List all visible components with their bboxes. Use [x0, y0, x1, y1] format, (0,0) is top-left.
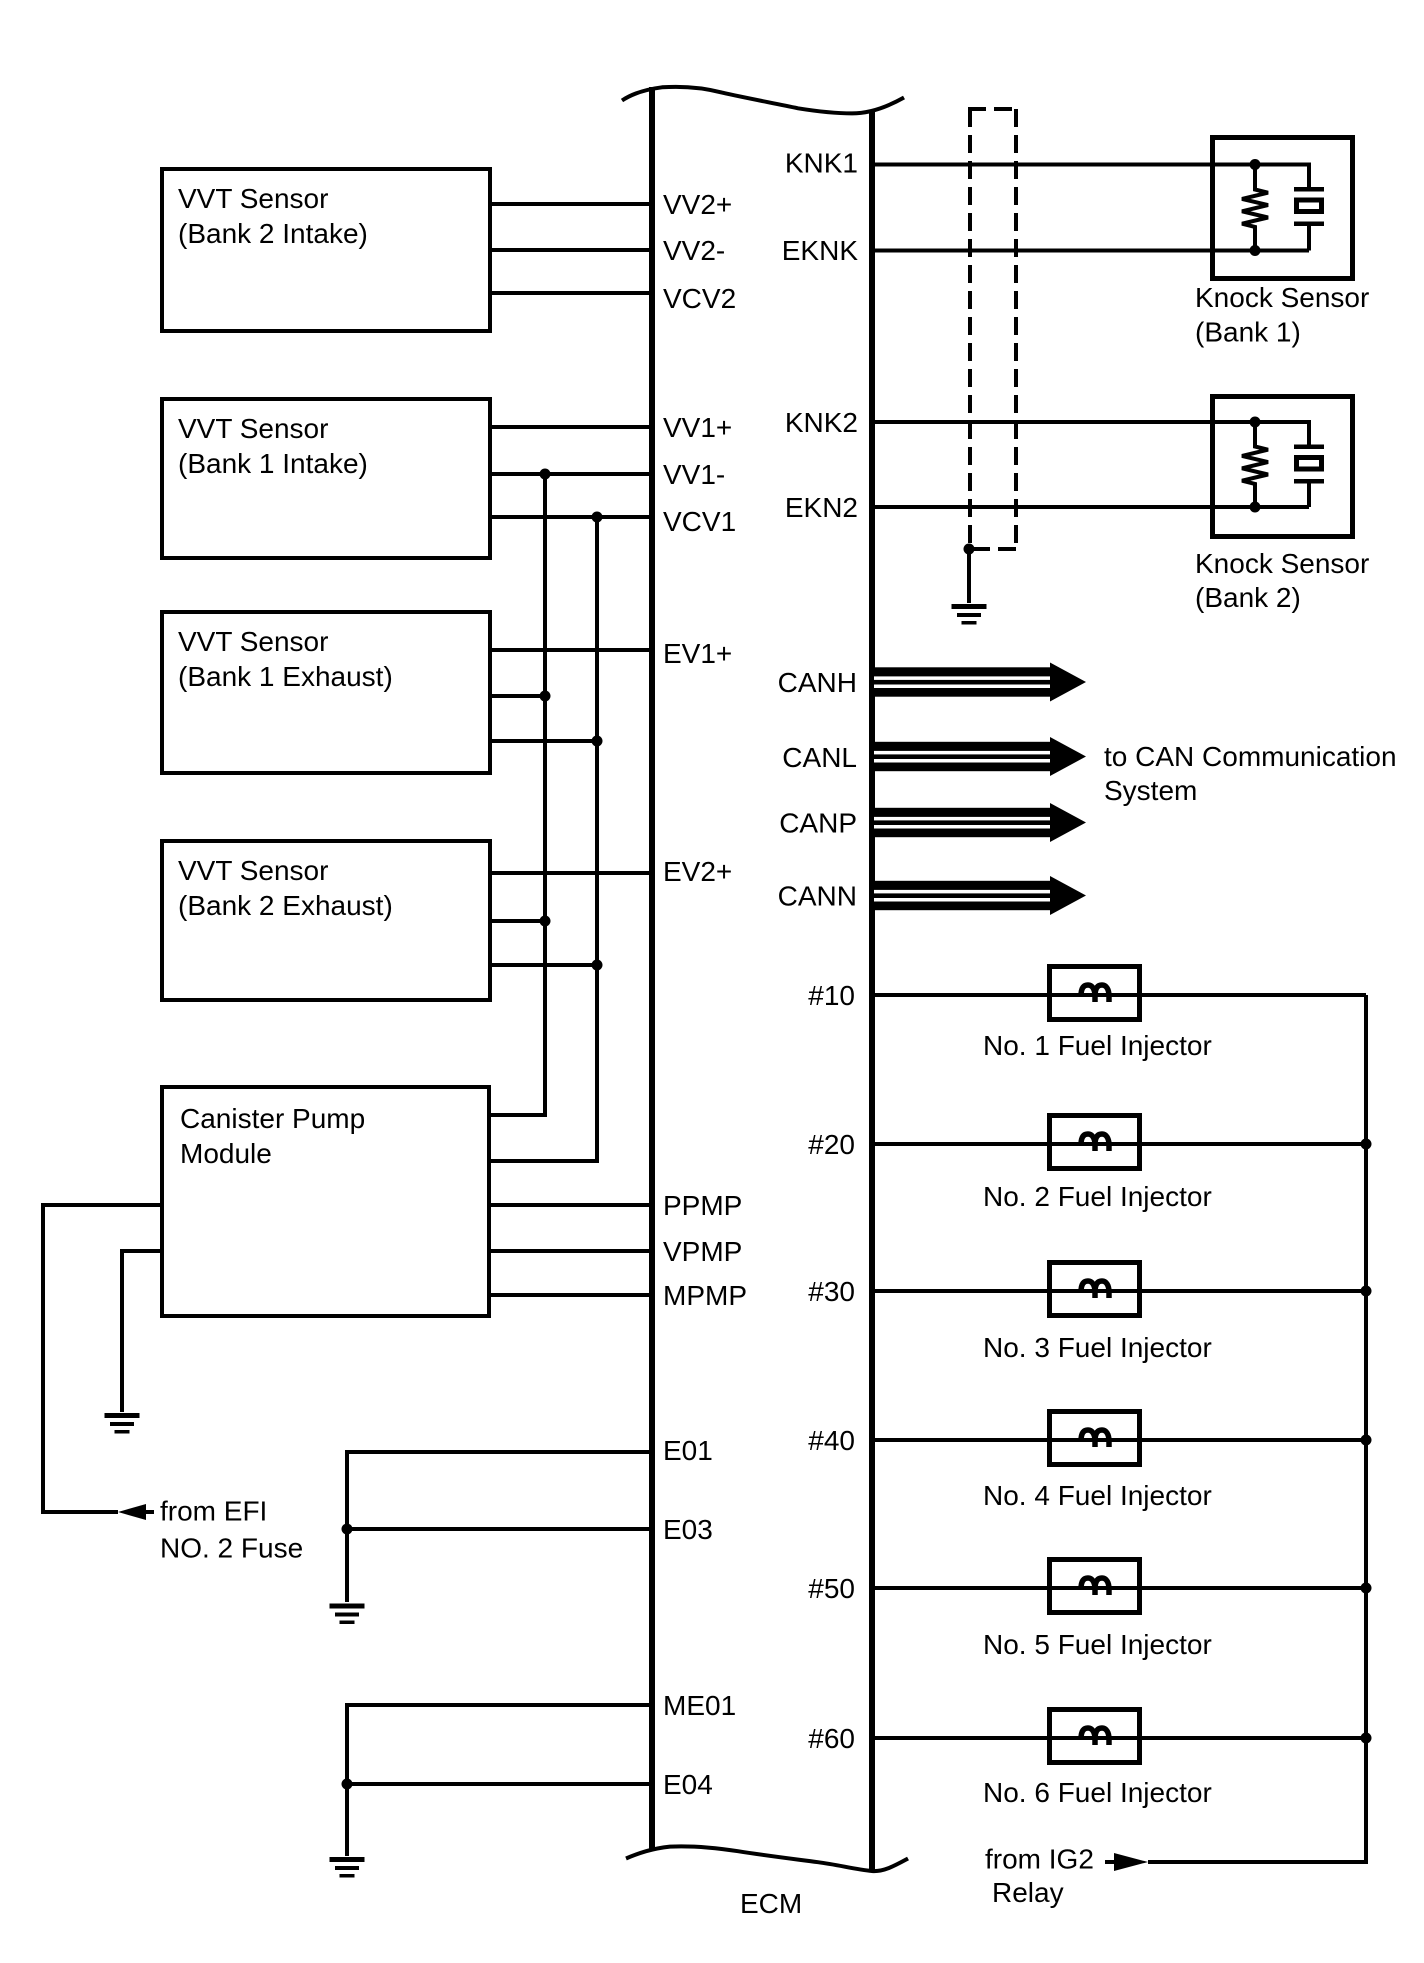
wire injector #10	[872, 993, 1366, 997]
junction dot EKNK	[1250, 245, 1261, 256]
ground E01/E03	[330, 1604, 365, 1625]
svg-text:VV1+: VV1+	[663, 412, 732, 443]
svg-text:(Bank 1 Exhaust): (Bank 1 Exhaust)	[178, 661, 393, 692]
svg-text:to CAN Communication: to CAN Communication	[1104, 741, 1397, 772]
arrow tail from EFI fuse	[146, 1510, 154, 1514]
wire canister ground	[122, 1251, 162, 1412]
svg-text:VCV2: VCV2	[663, 283, 736, 314]
CAN arrow CANN	[874, 876, 1086, 915]
wire VVT bank2 exhaust supply to riser	[490, 963, 597, 967]
svg-text:VV2+: VV2+	[663, 189, 732, 220]
ECM body left edge	[649, 87, 655, 1849]
junction dot bus #20	[1361, 1139, 1372, 1150]
fuel injector 4 (No. 4 Fuel Injector)	[1050, 1412, 1140, 1465]
wire VV1+	[490, 425, 652, 429]
CAN arrow CANP	[874, 803, 1086, 842]
svg-text:Relay: Relay	[992, 1877, 1064, 1908]
junction dot shield	[964, 544, 975, 555]
svg-text:No. 2 Fuel Injector: No. 2 Fuel Injector	[983, 1181, 1212, 1212]
svg-text:#20: #20	[808, 1129, 855, 1160]
ECM body right edge	[869, 111, 875, 1871]
junction dot bank1 exhaust supply	[592, 736, 603, 747]
arrowhead from EFI fuse	[118, 1504, 146, 1520]
Canister Pump Module box	[162, 1087, 489, 1316]
label Knock Sensor (Bank 1)	[1195, 282, 1369, 348]
wire EV2+	[490, 871, 652, 875]
svg-text:(Bank 2): (Bank 2)	[1195, 582, 1301, 613]
svg-text:(Bank 1 Intake): (Bank 1 Intake)	[178, 448, 368, 479]
Knock Sensor (Bank 1) box	[1213, 138, 1353, 279]
wire KNK1	[872, 163, 1255, 167]
ground canister pump	[105, 1413, 140, 1434]
wire injector #30	[872, 1289, 1366, 1293]
junction dot bus #60	[1361, 1733, 1372, 1744]
arrowhead from IG2 relay	[1114, 1853, 1148, 1871]
wire riser canister to VCV1 net	[489, 517, 597, 1161]
wire EKNK	[872, 249, 1255, 253]
svg-text:VVT Sensor: VVT Sensor	[178, 855, 328, 886]
junction dot ME01/E04	[342, 1779, 353, 1790]
wire canister supply from EFI fuse	[43, 1205, 162, 1512]
svg-text:No. 3 Fuel Injector: No. 3 Fuel Injector	[983, 1332, 1212, 1363]
VVT Sensor (Bank 2 Intake) box	[162, 169, 490, 331]
VVT Sensor (Bank 1 Intake) box	[162, 399, 490, 558]
wire VCV2	[490, 291, 652, 295]
label from IG2 Relay	[985, 1844, 1094, 1909]
wire injector #20	[872, 1142, 1366, 1146]
CAN arrow CANL	[874, 737, 1086, 776]
svg-text:CANH: CANH	[778, 667, 857, 698]
wire injector #40	[872, 1438, 1366, 1442]
svg-text:E03: E03	[663, 1514, 713, 1545]
wire VPMP	[489, 1249, 652, 1253]
svg-text:VPMP: VPMP	[663, 1236, 742, 1267]
svg-text:VV2-: VV2-	[663, 235, 725, 266]
svg-text:EKN2: EKN2	[785, 492, 858, 523]
junction dot bank1 exhaust minus	[540, 691, 551, 702]
ground ME01/E04	[330, 1857, 365, 1878]
svg-text:EV1+: EV1+	[663, 638, 732, 669]
CAN arrow CANH	[874, 663, 1086, 702]
svg-text:PPMP: PPMP	[663, 1190, 742, 1221]
svg-text:E04: E04	[663, 1769, 713, 1800]
resistor knock sensor 1	[1242, 165, 1268, 251]
svg-text:NO. 2 Fuse: NO. 2 Fuse	[160, 1533, 303, 1564]
wire VV2-	[490, 248, 652, 252]
wire injector common bus to IG2 relay	[1148, 995, 1366, 1862]
fuel injector 2 (No. 2 Fuel Injector)	[1050, 1116, 1140, 1169]
svg-text:Knock Sensor: Knock Sensor	[1195, 282, 1369, 313]
svg-text:VVT Sensor: VVT Sensor	[178, 183, 328, 214]
svg-text:ECM: ECM	[740, 1888, 802, 1919]
junction dot KNK1	[1250, 159, 1261, 170]
wire VCV1	[490, 515, 652, 519]
fuel injector 1 (No. 1 Fuel Injector)	[1050, 967, 1140, 1020]
wire injector #60	[872, 1736, 1366, 1740]
ECM top break wavy line	[622, 87, 904, 114]
junction dot EKN2	[1250, 502, 1261, 513]
svg-text:VV1-: VV1-	[663, 459, 725, 490]
svg-text:MPMP: MPMP	[663, 1280, 747, 1311]
svg-text:E01: E01	[663, 1435, 713, 1466]
wire MPMP	[489, 1293, 652, 1297]
resistor knock sensor 2	[1242, 422, 1268, 507]
svg-text:EV2+: EV2+	[663, 856, 732, 887]
svg-text:Module: Module	[180, 1138, 272, 1169]
label to CAN Communication System	[1104, 741, 1397, 806]
svg-text:VVT Sensor: VVT Sensor	[178, 413, 328, 444]
svg-text:CANN: CANN	[778, 881, 857, 912]
svg-text:Knock Sensor: Knock Sensor	[1195, 548, 1369, 579]
junction dot E01/E03	[342, 1524, 353, 1535]
wire VVT bank1 exhaust supply to riser	[490, 739, 597, 743]
piezo element knock sensor 2	[1255, 422, 1324, 507]
svg-text:from EFI: from EFI	[160, 1496, 267, 1527]
junction dot KNK2	[1250, 417, 1261, 428]
fuel injector 5 (No. 5 Fuel Injector)	[1050, 1560, 1140, 1613]
svg-text:#30: #30	[808, 1276, 855, 1307]
wire riser canister to VV1- net	[489, 474, 545, 1115]
wire KNK2	[872, 420, 1255, 424]
ECM bottom break wavy line	[626, 1846, 908, 1871]
fuel injector 3 (No. 3 Fuel Injector)	[1050, 1263, 1140, 1316]
ground shield	[952, 604, 987, 625]
svg-text:VCV1: VCV1	[663, 506, 736, 537]
VVT Sensor (Bank 2 Exhaust) box	[162, 841, 490, 1000]
wire EKN2	[872, 505, 1255, 509]
svg-text:VVT Sensor: VVT Sensor	[178, 626, 328, 657]
wire E01 to ground	[347, 1452, 652, 1602]
junction dot bus #50	[1361, 1583, 1372, 1594]
shield right dashed line	[1014, 109, 1018, 549]
svg-text:#50: #50	[808, 1573, 855, 1604]
wire E04	[347, 1782, 652, 1786]
wire injector #50	[872, 1586, 1366, 1590]
junction dot bus #40	[1361, 1435, 1372, 1446]
VVT Sensor (Bank 1 Exhaust) box	[162, 612, 490, 773]
svg-text:KNK2: KNK2	[785, 407, 858, 438]
svg-text:(Bank 1): (Bank 1)	[1195, 317, 1301, 348]
junction dot VCV1 riser	[592, 512, 603, 523]
wire VV2+	[490, 202, 652, 206]
svg-text:No. 5 Fuel Injector: No. 5 Fuel Injector	[983, 1629, 1212, 1660]
junction dot bus #30	[1361, 1286, 1372, 1297]
wire EV1+	[490, 648, 652, 652]
label Knock Sensor (Bank 2)	[1195, 548, 1369, 613]
wire shield to ground	[967, 549, 971, 603]
svg-text:No. 6 Fuel Injector: No. 6 Fuel Injector	[983, 1777, 1212, 1808]
wire VV1-	[490, 472, 652, 476]
svg-text:ME01: ME01	[663, 1690, 736, 1721]
shield bottom dashed line	[972, 547, 1016, 551]
arrow tail from IG2 relay	[1105, 1860, 1114, 1864]
fuel injector 6 (No. 6 Fuel Injector)	[1050, 1710, 1140, 1763]
shield top dashed line	[968, 107, 1018, 111]
svg-text:#60: #60	[808, 1723, 855, 1754]
wire ME01 to ground	[347, 1705, 652, 1856]
junction dot VV1- riser	[540, 469, 551, 480]
svg-text:KNK1: KNK1	[785, 148, 858, 179]
piezo element knock sensor 1	[1255, 165, 1324, 251]
svg-text:Canister Pump: Canister Pump	[180, 1103, 365, 1134]
svg-text:from IG2: from IG2	[985, 1844, 1094, 1875]
svg-text:(Bank 2 Intake): (Bank 2 Intake)	[178, 218, 368, 249]
junction dot bank2 exhaust supply	[592, 960, 603, 971]
svg-text:No. 1 Fuel Injector: No. 1 Fuel Injector	[983, 1030, 1212, 1061]
wire PPMP	[489, 1203, 652, 1207]
junction dot bank2 exhaust minus	[540, 916, 551, 927]
wire E03	[347, 1527, 652, 1531]
Knock Sensor (Bank 2) box	[1213, 397, 1353, 537]
shield left dashed line	[968, 109, 972, 547]
wire VVT bank1 exhaust minus to riser	[490, 694, 545, 698]
wire VVT bank2 exhaust minus to riser	[490, 919, 545, 923]
svg-text:#40: #40	[808, 1425, 855, 1456]
svg-text:(Bank 2 Exhaust): (Bank 2 Exhaust)	[178, 890, 393, 921]
svg-text:System: System	[1104, 775, 1197, 806]
svg-text:CANP: CANP	[779, 808, 857, 839]
svg-text:CANL: CANL	[782, 742, 857, 773]
svg-text:No. 4 Fuel Injector: No. 4 Fuel Injector	[983, 1480, 1212, 1511]
svg-text:#10: #10	[808, 980, 855, 1011]
svg-text:EKNK: EKNK	[782, 235, 859, 266]
